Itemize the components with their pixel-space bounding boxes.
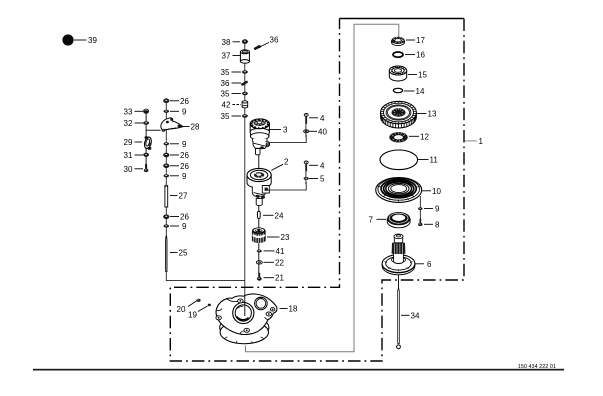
part 7 bearing ring dark <box>387 212 410 228</box>
svg-text:26: 26 <box>180 97 189 106</box>
part 29 link <box>143 136 152 150</box>
part 42 sleeve <box>242 101 248 108</box>
label 35 c <box>221 112 242 121</box>
axis part6 to part34 <box>398 272 400 290</box>
svg-text:2: 2 <box>284 158 289 167</box>
label 9 d <box>170 222 187 231</box>
svg-text:36: 36 <box>221 79 230 88</box>
svg-text:33: 33 <box>124 107 133 116</box>
label 34 <box>401 311 420 320</box>
part 2 hub <box>247 168 271 205</box>
part 16 ring <box>393 52 403 57</box>
svg-text:4: 4 <box>320 161 325 170</box>
label 15 <box>408 71 427 80</box>
label 9 e <box>424 205 440 214</box>
label 9 c <box>170 172 187 181</box>
svg-text:10: 10 <box>432 187 441 196</box>
label 17 <box>406 36 425 45</box>
part 26 nut c <box>163 164 169 169</box>
bolt bosses <box>238 299 243 303</box>
label 3 <box>269 126 289 135</box>
part 36 screw b <box>241 80 248 85</box>
svg-text:1: 1 <box>479 137 484 146</box>
svg-text:8: 8 <box>435 220 440 229</box>
label 9 a <box>170 107 187 116</box>
label 35 b <box>221 90 242 99</box>
part 26 nut b <box>163 153 169 158</box>
svg-text:20: 20 <box>177 305 186 314</box>
label 29 <box>124 138 143 147</box>
part 32 washer <box>143 121 149 124</box>
svg-text:35: 35 <box>221 112 230 121</box>
group line right column to housing <box>246 24 399 352</box>
svg-text:26: 26 <box>180 151 189 160</box>
label 6 <box>415 260 433 269</box>
label 1 <box>465 137 484 146</box>
label 4 upper <box>309 114 325 123</box>
svg-text:14: 14 <box>416 87 425 96</box>
label 14 <box>404 87 425 96</box>
label 5 <box>309 175 325 184</box>
svg-text:22: 22 <box>275 258 284 267</box>
label 42 <box>222 101 242 110</box>
label 12 <box>409 132 429 141</box>
svg-text:29: 29 <box>124 138 133 147</box>
part 9 washer side <box>418 207 422 210</box>
part 23 splined gear <box>252 228 266 243</box>
svg-text:15: 15 <box>418 71 427 80</box>
svg-text:36: 36 <box>270 36 279 45</box>
label 4 lower <box>309 161 325 170</box>
svg-text:26: 26 <box>180 213 189 222</box>
label 13 <box>417 110 437 119</box>
svg-text:13: 13 <box>428 110 437 119</box>
part 5 washer <box>304 177 309 180</box>
axis left chain 33-30 <box>145 112 147 168</box>
part 18 housing flange lower ellipses <box>220 316 269 344</box>
label 8 <box>424 220 440 229</box>
svg-text:24: 24 <box>275 211 284 220</box>
svg-text:9: 9 <box>182 107 187 116</box>
dash-dot boundary polygon <box>170 19 464 362</box>
part 41 washer <box>257 250 262 253</box>
second bore <box>255 297 268 310</box>
label 26 a <box>170 97 189 106</box>
label 27 <box>170 192 188 201</box>
label 18 <box>280 305 298 314</box>
svg-text:12: 12 <box>420 132 429 141</box>
svg-text:34: 34 <box>411 311 420 320</box>
label 25 <box>170 249 188 258</box>
svg-text:35: 35 <box>221 90 230 99</box>
part 11 seal ring <box>380 150 418 170</box>
part 9 washer c <box>164 174 170 177</box>
svg-text:11: 11 <box>430 156 439 165</box>
axis bolt4/40 upper <box>305 114 307 137</box>
part 6 shaft with flange <box>382 234 415 275</box>
connector chain33 to lever 28 <box>146 129 160 131</box>
label 24 <box>263 211 284 220</box>
label 38 <box>222 38 241 47</box>
label 28 <box>182 123 200 132</box>
part 10 bearing flange <box>376 178 422 203</box>
svg-text:27: 27 <box>179 192 188 201</box>
label 11 <box>418 156 438 165</box>
label 20 with diagonal leader <box>177 301 197 314</box>
svg-text:9: 9 <box>435 205 440 214</box>
label 30 <box>124 165 144 174</box>
part 35 washer a <box>242 70 248 73</box>
part 34 pin <box>397 287 401 348</box>
svg-text:26: 26 <box>180 162 189 171</box>
part 12 ring hatched <box>389 132 407 142</box>
label 26 b <box>170 151 189 160</box>
part 37 bushing <box>240 50 249 63</box>
part 21 bolt <box>257 273 262 281</box>
part 9 washer d <box>164 224 170 227</box>
part 3 coupler <box>250 119 270 155</box>
svg-text:39: 39 <box>88 36 97 45</box>
bottom rule <box>33 369 564 371</box>
svg-text:9: 9 <box>182 222 187 231</box>
part 24 pin <box>258 211 261 218</box>
part 27 rod <box>165 185 168 207</box>
part 38 nut <box>242 39 248 44</box>
svg-text:3: 3 <box>283 126 288 135</box>
label 10 <box>422 187 441 196</box>
part 9 washer a <box>164 110 170 113</box>
connector bolt40 to part3 clamp <box>270 135 307 143</box>
svg-text:30: 30 <box>124 165 133 174</box>
svg-text:41: 41 <box>276 247 285 256</box>
connector washer5 to part2 clamp <box>267 182 306 190</box>
label 7 <box>369 215 387 224</box>
label 31 <box>124 151 144 160</box>
part 36 screw top <box>253 45 260 50</box>
part 17 bearing small <box>392 37 405 46</box>
part 28 lever <box>161 118 183 132</box>
right lug hole <box>270 308 274 311</box>
svg-text:25: 25 <box>179 249 188 258</box>
part 26 nut d <box>163 215 169 220</box>
label 36 b <box>221 79 242 88</box>
svg-text:38: 38 <box>222 38 231 47</box>
label 35 a <box>221 68 242 77</box>
part 35 washer c <box>242 114 248 117</box>
axis bolt4/5 lower <box>305 161 307 184</box>
axis center column parts 3-21 <box>258 130 260 278</box>
svg-text:32: 32 <box>124 119 133 128</box>
label 21 <box>264 274 285 283</box>
svg-text:5: 5 <box>320 175 325 184</box>
svg-text:9: 9 <box>182 140 187 149</box>
svg-text:31: 31 <box>124 151 133 160</box>
part 39 plug (black dot) <box>62 34 73 45</box>
svg-text:28: 28 <box>191 123 200 132</box>
label 40 <box>309 127 327 136</box>
svg-text:18: 18 <box>289 305 298 314</box>
label 33 <box>124 107 144 116</box>
label 16 <box>405 51 425 60</box>
axis top chain to housing <box>244 44 246 295</box>
part 8 bolt side <box>418 219 422 226</box>
label 26 c <box>170 162 189 171</box>
axis line into housing bore <box>244 296 246 316</box>
svg-text:7: 7 <box>369 215 374 224</box>
svg-text:150 434 222 01: 150 434 222 01 <box>518 364 556 370</box>
axis washers 9/8 beside part 10 <box>419 196 421 224</box>
part 14 ring <box>393 88 402 92</box>
svg-text:21: 21 <box>275 274 284 283</box>
part 18 housing body <box>216 294 277 335</box>
part 15 bearing <box>389 66 406 81</box>
part 4 bolt upper <box>304 114 308 124</box>
label 23 <box>267 233 290 242</box>
svg-text:17: 17 <box>416 36 425 45</box>
part 40 washer <box>304 130 309 133</box>
part 33 nut <box>143 109 149 114</box>
svg-text:19: 19 <box>188 310 197 319</box>
doc number text <box>518 364 556 370</box>
part 13 gear <box>381 101 417 128</box>
label 36 top with diagonal leader <box>259 36 279 48</box>
svg-text:16: 16 <box>416 51 425 60</box>
part 35 washer b <box>242 92 248 95</box>
svg-text:37: 37 <box>222 52 231 61</box>
part 4 bolt lower <box>304 161 308 171</box>
svg-text:40: 40 <box>318 127 327 136</box>
svg-text:42: 42 <box>222 101 231 110</box>
part 25 rod <box>166 236 167 271</box>
label 2 with diagonal leader <box>271 158 289 171</box>
part 22 washer <box>256 261 262 264</box>
label 9 b <box>170 140 187 149</box>
label 39 <box>74 36 97 45</box>
label 22 <box>264 258 285 267</box>
label 19 with diagonal leader <box>188 306 208 319</box>
label 37 <box>222 52 242 61</box>
part 9 washer b <box>164 142 170 145</box>
svg-text:23: 23 <box>281 233 290 242</box>
main bore <box>233 302 254 323</box>
label 32 <box>124 119 144 128</box>
part 20 screw <box>196 299 200 302</box>
label 41 <box>264 247 285 256</box>
part 31 nut <box>143 153 149 157</box>
svg-text:35: 35 <box>221 68 230 77</box>
svg-text:9: 9 <box>182 172 187 181</box>
svg-text:4: 4 <box>320 114 325 123</box>
part 26 nut a <box>163 99 169 104</box>
part 19 screw <box>208 304 211 307</box>
axis left chain 26-25 down to connector <box>166 98 245 281</box>
label 26 d <box>170 213 189 222</box>
svg-text:6: 6 <box>427 260 432 269</box>
part 30 bolt <box>144 164 149 172</box>
